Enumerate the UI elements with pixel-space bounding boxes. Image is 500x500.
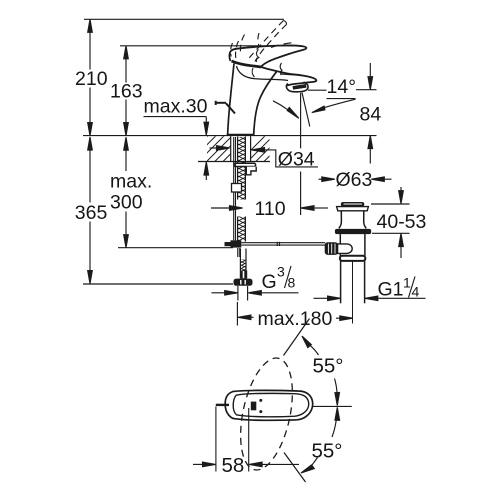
svg-text:4: 4 bbox=[412, 284, 420, 300]
countertop hatching right of hole bbox=[237, 136, 290, 164]
shank thread texture lower bbox=[232, 213, 246, 276]
svg-text:84: 84 bbox=[360, 104, 382, 126]
dimension max.300 bbox=[124, 137, 129, 248]
handle pivot shoulder (thick) bbox=[232, 61, 262, 67]
water stream line 14 deg bbox=[302, 93, 310, 127]
dimension 110 bbox=[211, 206, 328, 211]
svg-text:55°: 55° bbox=[312, 440, 343, 463]
tail inner edge line bbox=[280, 74, 305, 76]
spout chin outline bbox=[286, 82, 308, 92]
rod slider clamp bbox=[232, 184, 242, 193]
svg-text:55°: 55° bbox=[313, 355, 344, 378]
svg-text:Ø34: Ø34 bbox=[278, 149, 315, 171]
counter hole right edge bbox=[250, 136, 252, 161]
svg-text:8: 8 bbox=[288, 275, 296, 291]
mounting flange below counter bbox=[234, 163, 256, 166]
top view: screw dots bbox=[259, 399, 262, 402]
top view: lever nose stub bbox=[216, 404, 229, 406]
dome crease lines bbox=[256, 50, 258, 62]
wire: reference line at closed handle top bbox=[120, 45, 302, 47]
drain cap flange bbox=[337, 207, 369, 211]
svg-text:G: G bbox=[262, 271, 277, 293]
drain lever knurled nut bbox=[325, 242, 339, 255]
drain tailpipe G1 1/4 bbox=[340, 261, 342, 303]
label G3/8 with arrows bbox=[212, 286, 299, 301]
handle lever upper blade outline bbox=[229, 45, 306, 67]
lower 55 deg arc with arrows bbox=[301, 407, 340, 473]
drain upper body bbox=[339, 211, 342, 229]
flange bracket stop bbox=[246, 167, 256, 175]
svg-text:210: 210 bbox=[75, 68, 108, 90]
horizontal pop-up linkage rod bbox=[241, 242, 325, 246]
dimension 210 bbox=[88, 19, 93, 135]
wire: max300 end level line bbox=[118, 247, 233, 249]
svg-text:3: 3 bbox=[277, 264, 285, 280]
threaded shank edges bbox=[238, 137, 246, 271]
label 14 deg with leader bbox=[308, 89, 327, 91]
label G1 1/4 with arrows bbox=[314, 296, 426, 301]
dimension 84 bbox=[356, 63, 377, 164]
counter hole left edge bbox=[230, 136, 232, 161]
rod connector block at shank bbox=[231, 240, 242, 247]
spout centerline bbox=[300, 93, 302, 148]
dimension 58 bbox=[193, 407, 299, 472]
top view: handle inner outline bbox=[233, 393, 309, 416]
dimension max.180 bbox=[237, 302, 352, 326]
top view: swivel envelope (dashed ellipse) bbox=[232, 353, 302, 474]
wire: counter bottom line bbox=[198, 161, 270, 163]
top view: lower 55 deg position line bbox=[284, 453, 306, 483]
drain mid body bbox=[339, 234, 341, 256]
drain seal ring (black) diameter 63 bbox=[335, 229, 371, 234]
top view: cartridge mark bbox=[251, 402, 256, 411]
svg-text:max.30: max.30 bbox=[144, 96, 208, 118]
upper 55 deg arc with arrows bbox=[302, 336, 340, 405]
wire: countertop level line bbox=[83, 135, 377, 137]
handle open position (dashed) bbox=[231, 21, 292, 62]
svg-text:Ø63: Ø63 bbox=[336, 169, 373, 191]
drain centerline bbox=[352, 261, 354, 324]
wire: hose end level line bbox=[83, 283, 233, 285]
svg-text:300: 300 bbox=[110, 192, 143, 214]
svg-text:40-53: 40-53 bbox=[377, 211, 427, 233]
wire: top reference line (handle open height) bbox=[84, 18, 284, 20]
supply hose end fitting bbox=[240, 271, 247, 279]
svg-text:max.: max. bbox=[110, 171, 152, 193]
drain pop-up plug cap bbox=[341, 202, 365, 207]
handle lower blade and tail bbox=[261, 67, 316, 86]
top view: handle outer outline bbox=[225, 390, 312, 420]
shank thread texture below rod bbox=[236, 256, 248, 275]
svg-text:110: 110 bbox=[255, 198, 286, 220]
svg-text:14°: 14° bbox=[327, 76, 357, 98]
top view: centerline right bbox=[312, 405, 352, 407]
countertop hatching left of hole bbox=[180, 136, 249, 164]
svg-text:163: 163 bbox=[110, 81, 143, 103]
drain lever housing bbox=[338, 244, 353, 254]
label diameter 34 with leader bbox=[252, 148, 319, 167]
faucet body left outline bbox=[228, 64, 234, 136]
dimension 163 bbox=[124, 46, 129, 136]
drain collar bbox=[340, 256, 365, 261]
dimension 40-53 bbox=[371, 187, 410, 258]
cartridge dome under handle bbox=[237, 66, 289, 81]
supply hose nut G3/8 (dark) bbox=[234, 279, 253, 286]
dimension diameter 63 bbox=[319, 177, 392, 182]
svg-text:58: 58 bbox=[222, 454, 245, 477]
svg-text:365: 365 bbox=[75, 202, 108, 224]
arrow to hole left edge bbox=[217, 146, 230, 151]
shank thread texture upper bbox=[232, 133, 246, 204]
pop-up vertical rod bbox=[234, 137, 236, 240]
svg-text:max.180: max.180 bbox=[258, 308, 333, 330]
pop-up pull rod knob bbox=[215, 101, 235, 114]
dimension 365 bbox=[88, 137, 93, 284]
angle arc 14 deg bbox=[273, 99, 356, 118]
top view: upper 55 deg position line bbox=[284, 319, 310, 356]
aerator face (dark) bbox=[293, 86, 306, 88]
faucet body right outline bbox=[254, 72, 277, 136]
faucet base on counter bbox=[227, 134, 255, 136]
svg-text:1: 1 bbox=[403, 274, 411, 290]
svg-text:G1: G1 bbox=[378, 278, 404, 300]
